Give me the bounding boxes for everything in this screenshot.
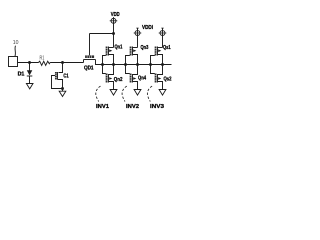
node VDD junction dot [112, 32, 115, 35]
svg-text:Qn2: Qn2 [114, 77, 123, 83]
capacitor C1 (MOS cap) [52, 63, 69, 97]
Qs2 gate lead from rail [151, 65, 155, 74]
wire C1 node to ground [62, 89, 64, 92]
Qs1 channel bar [157, 47, 159, 56]
Qn1 channel bar [108, 47, 110, 56]
transistor Qs1 [151, 45, 171, 65]
Qs1 substrate arrow [158, 49, 161, 52]
VDDi circle 2 [135, 31, 140, 36]
Qs2 source stub down [158, 82, 163, 90]
Qs1 drain stub [158, 47, 163, 49]
node A junction dot [28, 61, 31, 64]
svg-text:Qn3: Qn3 [141, 45, 149, 51]
transistor Qn4 [126, 65, 147, 96]
Qs2 channel bar [157, 74, 159, 83]
Qn4 drain stub up to rail [133, 65, 138, 75]
Qn4 hatched gate bar [130, 74, 132, 83]
QD1 drain drop to rail [96, 60, 103, 65]
svg-text:C1: C1 [63, 74, 68, 80]
wire VDD node to QD1 gate [90, 33, 114, 35]
svg-text:VDDi: VDDi [142, 25, 153, 31]
Qs2 hatched gate bar [155, 74, 157, 83]
Qs1 hatched gate bar [155, 47, 157, 56]
ground for Qs2 [159, 90, 166, 96]
svg-text:INV1: INV1 [96, 104, 110, 110]
Qn1 gate lead [103, 56, 106, 65]
Qs1 gate lead [151, 56, 155, 65]
VDDi terminal 2 [134, 25, 154, 48]
VDDi circle 3 [160, 31, 165, 36]
VDD circle [111, 18, 116, 23]
Qn2 substrate arrow [109, 77, 112, 80]
C1 channel bar [57, 72, 59, 80]
rail junction dot 5 [149, 63, 152, 66]
QD1 channel line [84, 59, 96, 61]
INV3 leader dashed [147, 86, 152, 101]
Qn1 source stub [109, 55, 114, 65]
svg-text:QD1: QD1 [84, 65, 94, 71]
Qs2 substrate arrow [158, 77, 161, 80]
Qn1 hatched gate bar [106, 47, 108, 56]
transistor Qn2 [103, 65, 123, 96]
Qs1 source stub [158, 55, 163, 65]
Qn2 drain stub up to rail [109, 65, 114, 75]
Qn3 source stub [133, 55, 138, 65]
Qn2 hatched gate bar [106, 74, 108, 83]
input terminal box 10 [9, 57, 18, 67]
svg-text:Qs2: Qs2 [164, 76, 172, 82]
resistor R1 [39, 61, 51, 65]
output rail wire [103, 64, 172, 66]
QD1 gate lead up [89, 34, 91, 56]
INV1 leader dashed [96, 86, 101, 101]
wire D1 to ground [29, 76, 31, 84]
QD1 hatched gate bar [85, 55, 94, 58]
wire VDD node down to Qn1 drain [113, 34, 115, 48]
svg-text:VDD: VDD [111, 12, 120, 18]
VDD terminal [110, 12, 120, 34]
Qs2 drain stub up to rail [158, 65, 163, 75]
Qn4 channel bar [132, 74, 134, 83]
Qn1 substrate arrow [109, 49, 112, 52]
svg-text:D1: D1 [18, 71, 25, 77]
Qn3 hatched gate bar [130, 47, 132, 56]
Qn4 gate lead from rail [126, 65, 130, 74]
C1 ground node dot [61, 87, 64, 90]
Qn2 gate lead from rail [103, 65, 106, 74]
Qn3 drain stub [133, 47, 138, 49]
wire R1 to node B [50, 62, 83, 64]
svg-text:Qs1: Qs1 [163, 45, 171, 51]
Qn3 gate lead [126, 56, 130, 65]
Qn4 source stub down [133, 82, 138, 90]
Qn1 drain stub [109, 47, 114, 49]
svg-text:Qn1: Qn1 [115, 45, 123, 51]
transistor Qs2 [151, 65, 172, 96]
wire node B down to C1 drain [59, 63, 63, 73]
Qn3 channel bar [132, 47, 134, 56]
wire node A down to D1 [29, 63, 31, 71]
rail junction dot 1 [101, 63, 104, 66]
Qn2 source stub down [109, 82, 114, 90]
rail junction dot 6 [161, 63, 164, 66]
svg-text:INV3: INV3 [150, 104, 165, 110]
svg-text:10: 10 [13, 40, 19, 46]
Qn3 substrate arrow [133, 49, 136, 52]
C1 hatched gate bar [55, 72, 57, 80]
rail junction dot 2 [112, 63, 115, 66]
diode D1 [27, 70, 33, 75]
C1 source stub down [58, 80, 63, 89]
wire input to R1 [18, 62, 39, 64]
ground for Qn4 [134, 90, 141, 96]
transistor Qn3 [126, 45, 149, 65]
svg-text:Qn4: Qn4 [138, 76, 146, 82]
svg-text:INV2: INV2 [126, 104, 139, 110]
ground for Qn2 [110, 90, 117, 96]
svg-text:R1: R1 [40, 55, 45, 61]
Qn2 channel bar [108, 74, 110, 83]
rail junction dot 4 [136, 63, 139, 66]
Qn4 substrate arrow [133, 77, 136, 80]
C1 gate lead loop [52, 76, 63, 89]
transistor Qn1 [103, 45, 123, 65]
INV2 leader dashed [122, 86, 127, 101]
leader line for 10 [14, 46, 17, 57]
ground for D1 [26, 84, 33, 89]
ground for C1 [59, 91, 66, 96]
rail junction dot 3 [124, 63, 127, 66]
VDDi terminal 3 [159, 28, 167, 47]
node B junction dot [61, 61, 64, 64]
transistor QD1 [84, 34, 103, 72]
QD1 source jog from wire [83, 60, 85, 63]
